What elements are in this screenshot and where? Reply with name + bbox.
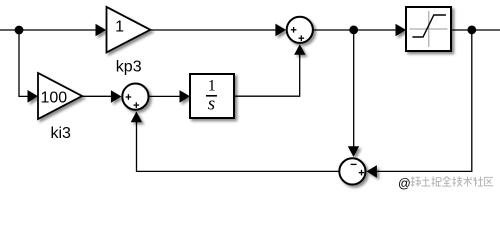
稀 (411, 177, 421, 187)
sum S2 sign bottom + (299, 35, 305, 41)
技 (453, 177, 463, 187)
saturation icon axes (410, 11, 448, 47)
wire kp3 to sum2 (150, 29, 277, 31)
svg-text:1: 1 (115, 19, 124, 36)
sum S1 (ki path + feedback) (122, 84, 148, 110)
社 (474, 177, 484, 187)
wire saturation output (451, 29, 500, 31)
node junction output (467, 26, 476, 35)
sum S2 sign left + (291, 27, 297, 33)
wire input main (0, 29, 98, 31)
金 (442, 177, 451, 187)
wire arrow into kp3 (96, 24, 107, 37)
wire arrow into ki3 (28, 90, 39, 103)
wire integrator to sum2 bottom (234, 52, 300, 96)
wire arrow into sum3 top (348, 146, 359, 157)
wire branch down to ki3 (19, 30, 30, 96)
wire arrow into sum1 bottom (131, 111, 142, 122)
wire arrow into sum2 left (275, 24, 286, 37)
node input junction (15, 26, 24, 35)
wire sum2 to saturation (313, 29, 398, 31)
区 (485, 177, 494, 185)
sum S3 (anti-windup: minus presat plus sat) (339, 158, 365, 184)
术 (463, 177, 472, 187)
saturation icon curve (412, 15, 446, 37)
掘 (432, 177, 442, 187)
sum S3 sign right + (359, 170, 365, 176)
wire sum3 output to left and up into sum1 (137, 120, 339, 171)
svg-text:100: 100 (40, 90, 67, 107)
watermark (398, 177, 493, 191)
wire arrow into sum2 bottom (294, 44, 305, 55)
wire arrow into saturation (396, 24, 407, 37)
sum S1 sign left + (126, 94, 132, 100)
wire output feedback down-left (377, 30, 472, 171)
wire arrow into integrator (180, 90, 191, 103)
node junction presat (349, 26, 358, 35)
wire arrow into sum3 right (366, 165, 377, 178)
sum S2 (kp + ki integ) (287, 17, 313, 43)
gain kp3 (107, 7, 151, 53)
svg-text:1: 1 (208, 78, 216, 95)
土 (421, 177, 430, 186)
wire ki3 to sum1 (82, 95, 114, 97)
sum S1 sign bottom + (134, 102, 140, 108)
wire arrow into sum1 left (111, 90, 122, 103)
wire sum1 to integrator (149, 95, 183, 97)
integrator U1 1/s (190, 74, 234, 118)
sum S3 sign top minus (351, 163, 357, 165)
svg-text:ki3: ki3 (50, 125, 71, 142)
svg-text:s: s (208, 94, 215, 115)
wire presat down to sum3 (353, 30, 355, 150)
svg-text:kp3: kp3 (116, 59, 142, 76)
gain ki3 (38, 73, 82, 119)
svg-text:@: @ (398, 177, 411, 191)
saturation block (406, 7, 451, 51)
